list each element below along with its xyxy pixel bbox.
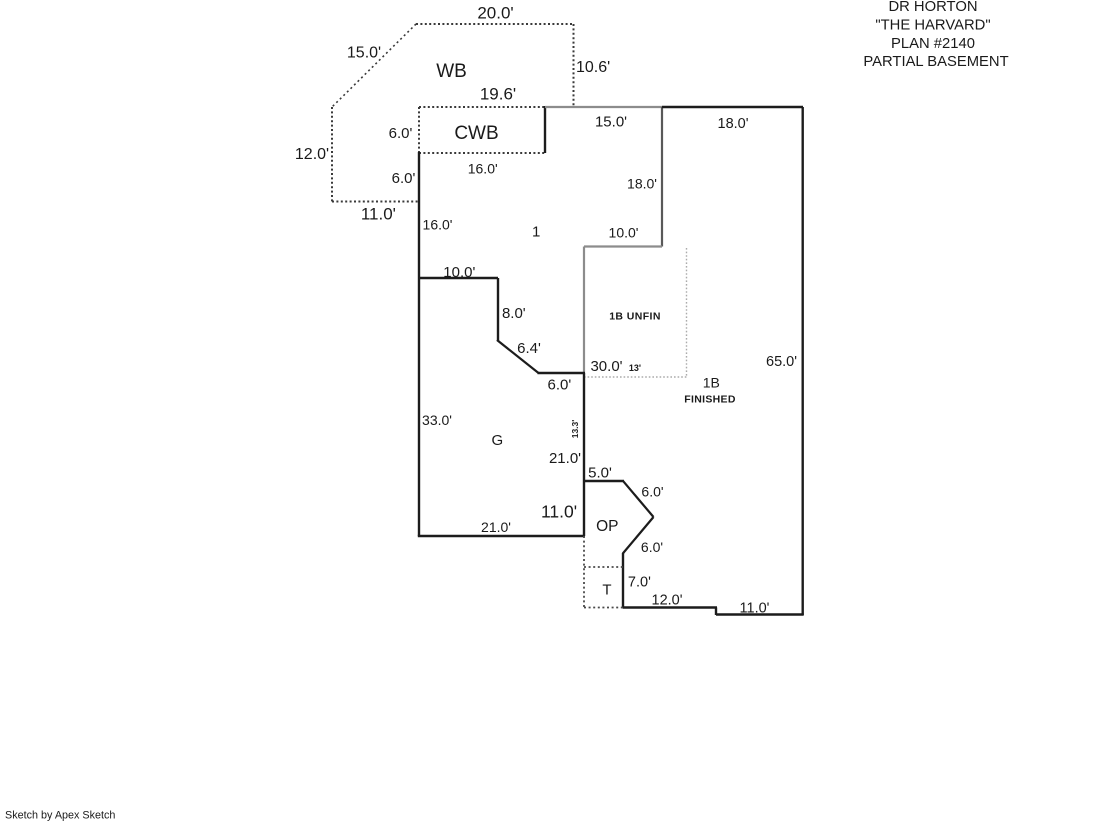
- svg-text:16.0': 16.0': [468, 161, 498, 177]
- first floor interior wall vertical 18.0': [661, 107, 663, 247]
- svg-text:13': 13': [629, 363, 641, 373]
- 1B unfinished area right edge (dotted light): [686, 248, 688, 377]
- wood deck WB right edge (dotted): [573, 24, 575, 107]
- basement unfinished left wall gray: [583, 247, 585, 374]
- wood deck WB bottom edge (dotted): [332, 201, 419, 203]
- svg-text:WB: WB: [436, 61, 467, 82]
- terrace T bottom edge (dotted): [584, 607, 623, 609]
- svg-text:10.0': 10.0': [609, 225, 639, 241]
- svg-text:G: G: [491, 432, 503, 449]
- svg-text:T: T: [602, 582, 611, 599]
- OP lower diagonal 6.0': [623, 517, 654, 554]
- svg-text:21.0': 21.0': [481, 519, 511, 535]
- garage bottom wall 21.0': [418, 535, 585, 537]
- svg-text:33.0': 33.0': [422, 412, 452, 428]
- covered wood deck CWB bottom edge (dotted): [419, 152, 545, 154]
- svg-text:6.0': 6.0': [641, 484, 663, 500]
- svg-text:FINISHED: FINISHED: [684, 394, 736, 406]
- svg-text:12.0': 12.0': [652, 593, 683, 609]
- svg-text:30.0': 30.0': [590, 358, 622, 375]
- svg-text:PLAN #2140: PLAN #2140: [891, 36, 975, 52]
- wood deck WB left edge (dotted): [331, 107, 333, 202]
- covered wood deck CWB top edge (dotted): [419, 106, 545, 108]
- open porch OP left edge (dotted): [583, 536, 585, 608]
- bottom right wall 11.0': [716, 613, 804, 615]
- svg-text:8.0': 8.0': [502, 305, 526, 322]
- garage notch wall 8.0': [497, 278, 499, 341]
- svg-text:15.0': 15.0': [595, 114, 627, 131]
- svg-text:"THE HARVARD": "THE HARVARD": [875, 18, 990, 34]
- garage wall 6.0' horizontal: [538, 372, 586, 374]
- svg-text:11.0': 11.0': [361, 205, 396, 224]
- covered wood deck CWB right wall (solid): [544, 106, 546, 153]
- wood deck WB diagonal edge (dotted): [332, 24, 416, 107]
- wall 13.3' vertical: [583, 373, 585, 536]
- svg-text:1B: 1B: [703, 375, 720, 391]
- svg-text:CWB: CWB: [454, 123, 498, 144]
- svg-text:7.0': 7.0': [628, 575, 651, 591]
- garage G top wall 10.0': [418, 277, 498, 279]
- svg-text:11.0': 11.0': [541, 502, 577, 522]
- svg-text:6.0': 6.0': [389, 125, 413, 142]
- svg-text:11.0': 11.0': [740, 601, 770, 617]
- main outline top wall black 18.0': [662, 106, 803, 108]
- svg-text:6.0': 6.0': [641, 539, 663, 555]
- svg-text:PARTIAL BASEMENT: PARTIAL BASEMENT: [863, 54, 1008, 70]
- svg-text:16.0': 16.0': [423, 217, 453, 233]
- first floor top wall gray 15.0': [545, 106, 662, 108]
- svg-text:1B UNFIN: 1B UNFIN: [609, 311, 661, 323]
- bottom wall 12.0': [623, 606, 717, 608]
- svg-text:20.0': 20.0': [477, 4, 513, 23]
- main outline right wall 65.0': [802, 107, 804, 615]
- svg-text:OP: OP: [596, 518, 618, 535]
- svg-text:65.0': 65.0': [766, 354, 797, 370]
- svg-text:12.0': 12.0': [295, 146, 329, 163]
- bottom step wall: [715, 608, 717, 616]
- OP upper diagonal 6.0': [623, 481, 654, 517]
- svg-text:13.3': 13.3': [570, 420, 580, 439]
- garage diagonal wall 6.4': [497, 340, 539, 373]
- terrace T top edge (dotted): [584, 566, 623, 568]
- wood deck WB top edge (dotted): [416, 23, 574, 25]
- svg-text:6.0': 6.0': [548, 377, 572, 394]
- svg-text:10.0': 10.0': [443, 264, 475, 281]
- svg-text:10.6': 10.6': [576, 59, 610, 76]
- svg-text:19.6': 19.6': [480, 85, 516, 104]
- svg-text:1: 1: [532, 224, 540, 241]
- garage G left outer wall 33.0' and first floor left wall 16.0': [418, 152, 420, 536]
- 1B unfinished area bottom edge (dotted light): [584, 376, 687, 378]
- svg-text:5.0': 5.0': [588, 465, 612, 482]
- svg-text:18.0': 18.0': [718, 116, 749, 132]
- svg-text:21.0': 21.0': [549, 450, 581, 467]
- svg-text:6.0': 6.0': [392, 170, 416, 187]
- wall 7.0' vertical: [622, 553, 624, 609]
- covered wood deck CWB left edge (dotted): [418, 107, 420, 153]
- svg-text:DR HORTON: DR HORTON: [888, 0, 977, 15]
- wall 5.0' horizontal: [584, 480, 624, 482]
- svg-text:15.0': 15.0': [347, 45, 381, 62]
- svg-text:6.4': 6.4': [517, 340, 541, 357]
- svg-text:18.0': 18.0': [627, 176, 657, 192]
- basement top wall gray 10.0': [584, 245, 662, 247]
- svg-text:Sketch by Apex Sketch: Sketch by Apex Sketch: [5, 810, 115, 821]
